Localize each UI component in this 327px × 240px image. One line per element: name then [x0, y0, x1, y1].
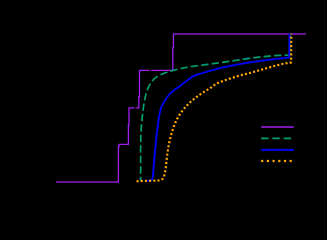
legend sample: green dashed line — [261, 137, 294, 139]
fitted CDF curve 3 (orange dotted) — [137, 34, 292, 181]
ECDF step curve (purple) — [56, 34, 306, 182]
fitted CDF curve 1 (green dashed) — [141, 34, 291, 181]
legend sample: orange dotted line — [261, 160, 294, 162]
legend sample: blue solid line — [261, 149, 294, 151]
legend sample: purple solid line — [261, 126, 294, 128]
fitted CDF curve 2 (blue solid) — [146, 34, 290, 181]
